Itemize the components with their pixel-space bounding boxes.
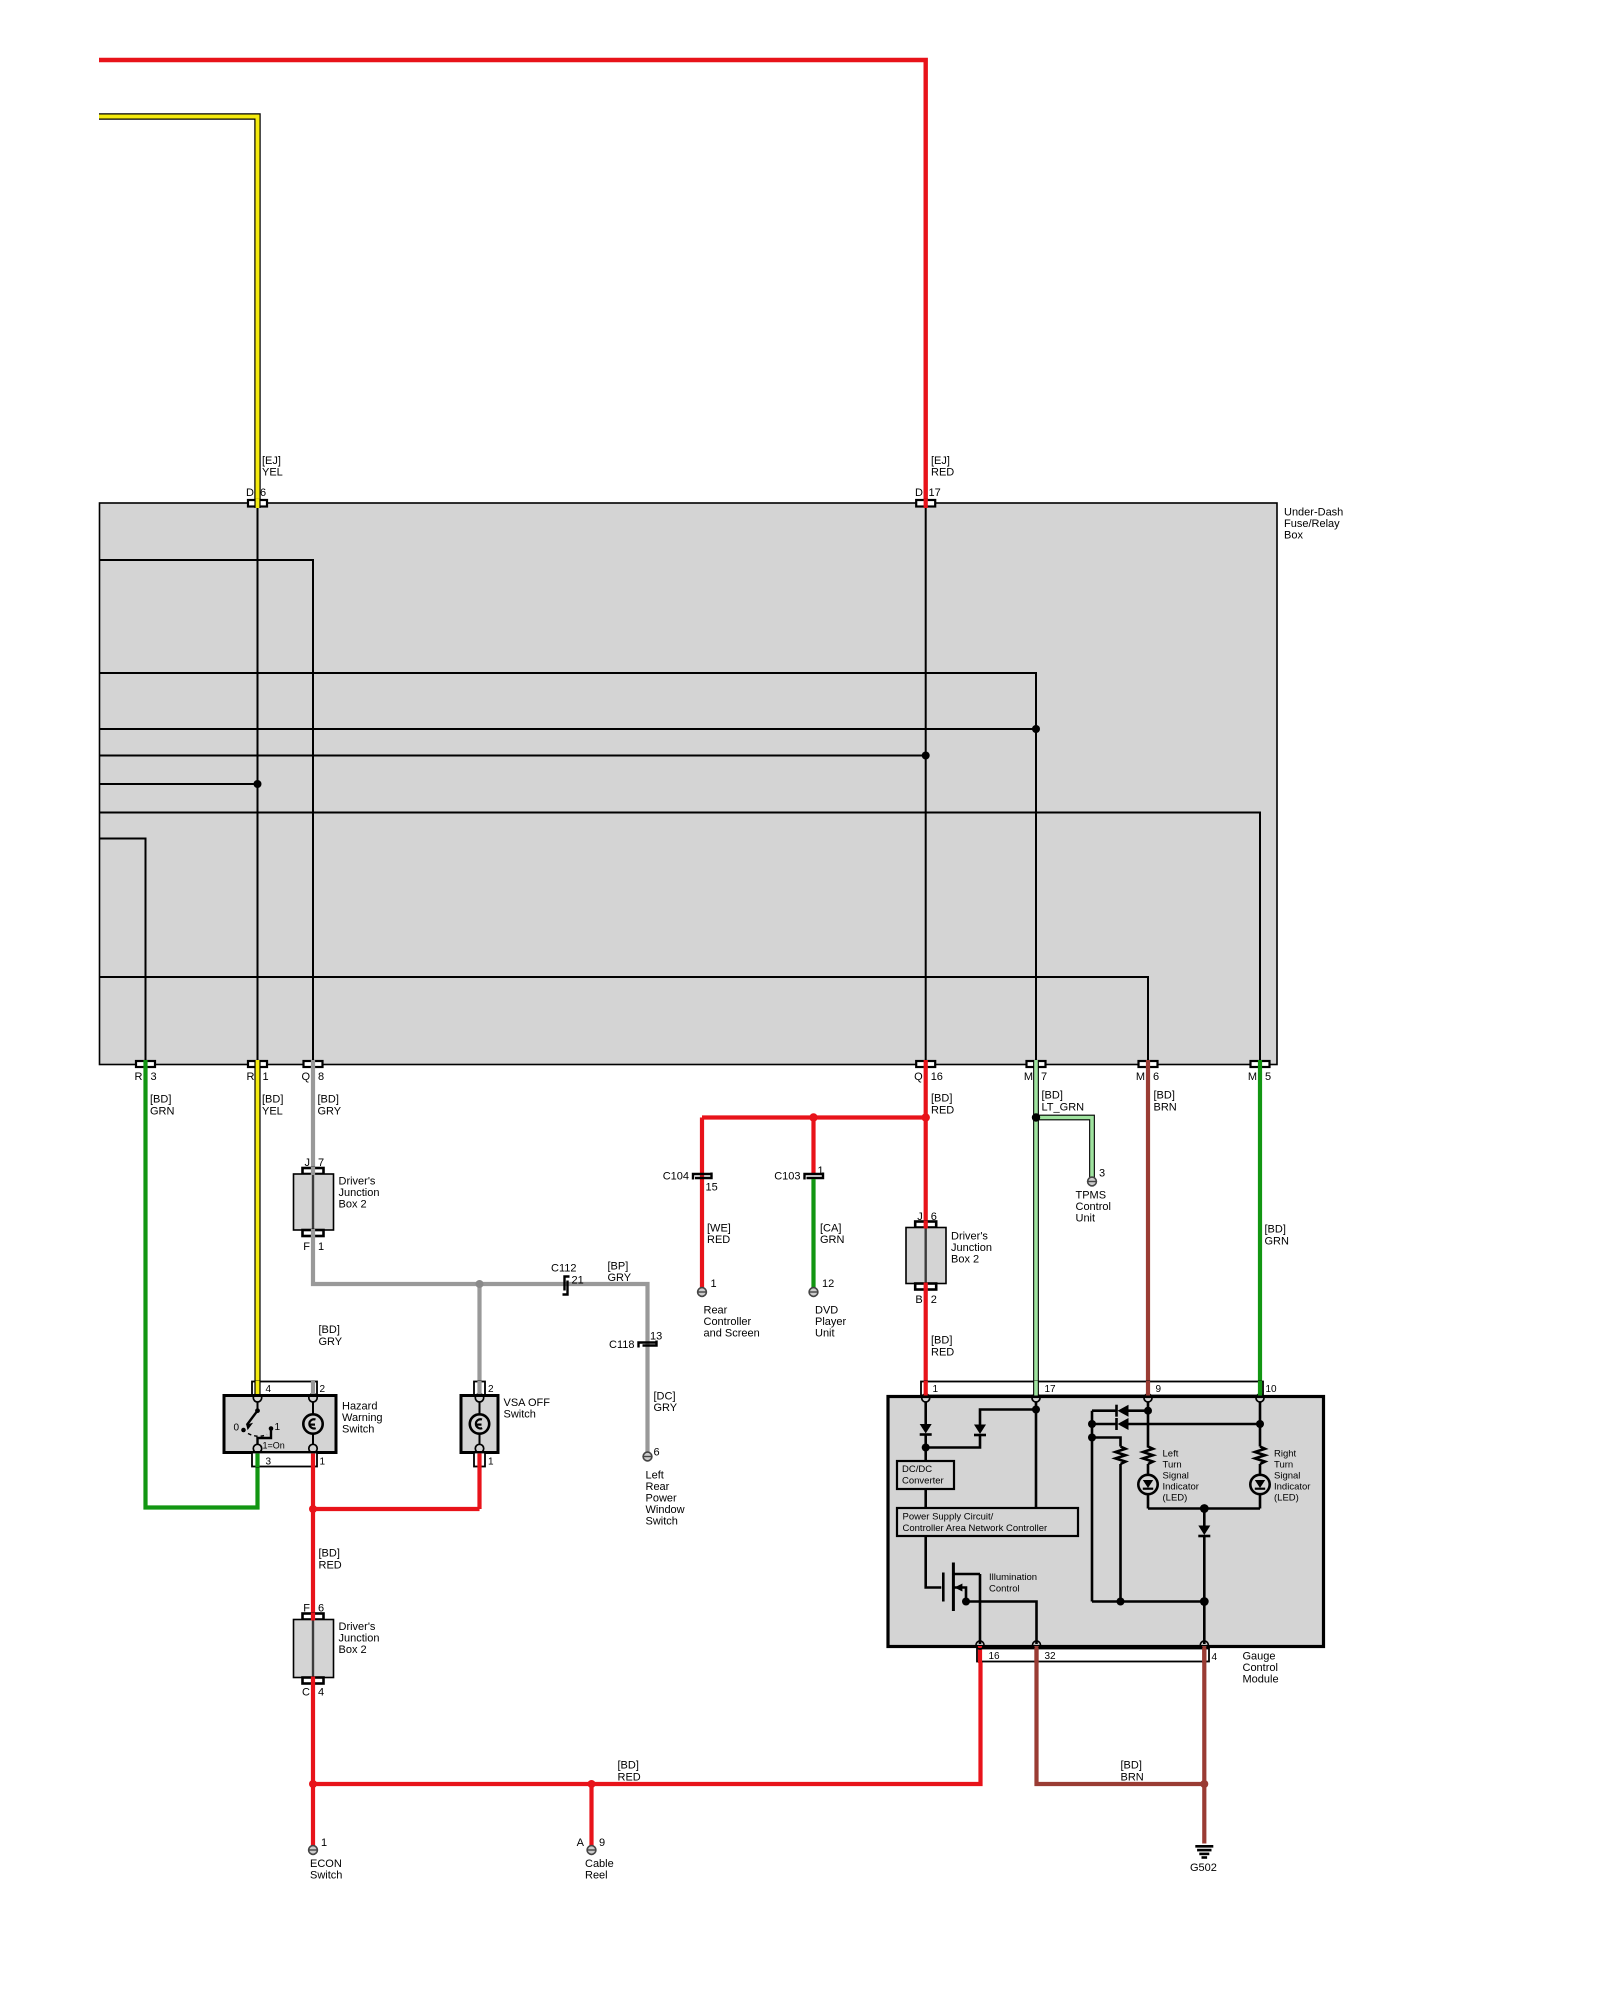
wire stub [EJ] YEL through pin bar D6 xyxy=(254,499,260,508)
vertical node wire left xyxy=(1088,1411,1096,1602)
wire stub [EJ] RED through pin bar D17 xyxy=(924,499,928,508)
svg-text:1: 1 xyxy=(488,1457,494,1468)
svg-text:1: 1 xyxy=(711,1278,717,1290)
pin M 5 label xyxy=(1248,1071,1271,1083)
svg-text:Left: Left xyxy=(1163,1449,1179,1460)
label Right Turn Signal Indicator (LED) xyxy=(1274,1449,1310,1504)
svg-text:Left: Left xyxy=(646,1470,664,1482)
wire [BD] LT_GRN from M7 to gauge pin 17 and TPMS xyxy=(1032,1067,1092,1395)
gauge pin 1 label xyxy=(933,1384,939,1395)
svg-text:M: M xyxy=(1248,1071,1257,1083)
wire pin 17 to power supply circuit xyxy=(1035,1402,1038,1508)
Hazard Warning Switch top connector xyxy=(252,1382,317,1396)
svg-text:8: 8 xyxy=(318,1071,324,1083)
label [BD] LT_GRN xyxy=(1042,1090,1085,1114)
Driver's Junction Box 2 (upper) xyxy=(294,1174,334,1230)
wire pin 9 node xyxy=(1144,1402,1152,1448)
svg-text:Illumination: Illumination xyxy=(989,1572,1037,1583)
pin F 6 label xyxy=(303,1603,324,1615)
label 3 (TPMS) xyxy=(1099,1168,1105,1180)
svg-text:Controller: Controller xyxy=(704,1316,752,1328)
label Cable Reel xyxy=(585,1858,614,1882)
wire stub RED through pin bar F6 xyxy=(311,1613,315,1621)
pin F 1 label xyxy=(303,1241,324,1253)
Hazard Warning Switch body xyxy=(224,1396,336,1453)
label C118 xyxy=(609,1339,634,1351)
svg-text:BRN: BRN xyxy=(1121,1772,1144,1784)
pin bar R3 xyxy=(136,1061,155,1067)
svg-text:1: 1 xyxy=(818,1165,824,1177)
wire [BD] BRN from M6 to gauge pin 9 xyxy=(1146,1067,1150,1395)
pin bar M5 xyxy=(1251,1061,1270,1067)
label Driver's Junction Box 2 (lower) xyxy=(339,1621,380,1656)
svg-text:Rear: Rear xyxy=(646,1481,670,1493)
label C112 xyxy=(551,1263,576,1275)
wire stub [BD] BRN through pin bar M6 xyxy=(1146,1060,1150,1068)
gauge pin 1 circle xyxy=(922,1394,930,1402)
svg-text:1: 1 xyxy=(321,1837,327,1849)
svg-text:RED: RED xyxy=(707,1234,730,1246)
label A 9 xyxy=(577,1837,605,1849)
svg-text:Box 2: Box 2 xyxy=(951,1254,979,1266)
svg-text:YEL: YEL xyxy=(262,467,283,479)
label [BD] GRY (F1) xyxy=(319,1324,343,1348)
wire stub GRY into hazard pin 2 xyxy=(311,1381,315,1394)
svg-text:6: 6 xyxy=(654,1447,660,1459)
svg-text:Gauge: Gauge xyxy=(1243,1651,1276,1663)
pin bar R1 xyxy=(248,1061,267,1067)
connector C104 xyxy=(693,1173,712,1180)
svg-text:[BD]: [BD] xyxy=(318,1094,339,1106)
label 1 (contact) xyxy=(275,1422,281,1433)
svg-text:Control: Control xyxy=(989,1584,1020,1595)
svg-text:9: 9 xyxy=(599,1837,605,1849)
svg-text:10: 10 xyxy=(1266,1384,1278,1395)
svg-text:5: 5 xyxy=(1265,1071,1271,1083)
wire [BD] GRY from F1 to switches and C112 xyxy=(313,1236,648,1452)
pin bar F6 xyxy=(303,1614,324,1620)
VSA bottom pin rect xyxy=(474,1453,485,1467)
svg-text:9: 9 xyxy=(1156,1384,1162,1395)
svg-text:[BD]: [BD] xyxy=(618,1760,639,1772)
VSA OFF Switch body xyxy=(461,1396,498,1453)
hazard lamp xyxy=(303,1402,322,1444)
LED common node xyxy=(1148,1504,1260,1513)
gauge pin 17 circle xyxy=(1032,1394,1040,1402)
pin 1 label xyxy=(320,1457,326,1468)
DC/DC Converter xyxy=(897,1461,954,1489)
svg-text:Driver's: Driver's xyxy=(339,1621,376,1633)
svg-text:BRN: BRN xyxy=(1154,1102,1177,1114)
gauge pin 16 label xyxy=(989,1651,1001,1662)
wire stub YEL into hazard pin 4 xyxy=(254,1381,260,1394)
wire [BD] GRY from Q8 to junction box J7 xyxy=(311,1067,315,1168)
svg-text:4: 4 xyxy=(266,1384,272,1395)
svg-text:C112: C112 xyxy=(551,1263,576,1275)
wire [BD] BRN from pins 32 and 4 to G502 xyxy=(1037,1648,1209,1844)
svg-text:RED: RED xyxy=(931,1105,954,1117)
transistor Q1 illumination MOSFET xyxy=(943,1563,980,1612)
svg-text:Power Supply Circuit/: Power Supply Circuit/ xyxy=(903,1512,994,1523)
svg-text:YEL: YEL xyxy=(262,1106,283,1118)
svg-text:[BD]: [BD] xyxy=(319,1324,340,1336)
svg-text:Switch: Switch xyxy=(342,1424,374,1436)
svg-text:A: A xyxy=(577,1837,585,1849)
Gauge Control Module body xyxy=(888,1397,1324,1647)
svg-text:17: 17 xyxy=(929,487,941,499)
pin bar Q16 xyxy=(916,1061,935,1067)
label Left Rear Power Window Switch xyxy=(646,1470,685,1528)
wire [BD] RED hazard pin1 to junction and VSA pin1 xyxy=(309,1467,480,1614)
terminal A 9 of Cable Reel xyxy=(587,1846,596,1855)
label G502 xyxy=(1190,1862,1217,1874)
svg-text:Q: Q xyxy=(301,1071,310,1083)
pin 2 label xyxy=(320,1384,326,1395)
svg-text:GRY: GRY xyxy=(608,1272,632,1284)
Driver's Junction Box 2 (right) xyxy=(906,1228,946,1284)
wire stub BRN into gauge pin 9 xyxy=(1146,1381,1150,1396)
svg-text:C: C xyxy=(302,1687,310,1699)
svg-text:Signal: Signal xyxy=(1163,1471,1189,1482)
gauge pin 32 label xyxy=(1045,1651,1057,1662)
svg-text:Power: Power xyxy=(646,1493,678,1505)
svg-text:[BD]: [BD] xyxy=(1265,1224,1286,1236)
wire [BD] YEL from R1 to Hazard pin 4 xyxy=(254,1067,260,1382)
svg-text:[EJ]: [EJ] xyxy=(931,455,950,467)
label [BD] RED (B2) xyxy=(931,1335,954,1359)
pin bar M6 xyxy=(1139,1061,1158,1067)
label [EJ] YEL xyxy=(262,455,283,479)
label C104 xyxy=(663,1171,689,1183)
hazard contact 1 xyxy=(269,1426,274,1431)
pin Q 8 label xyxy=(301,1071,324,1083)
wire stub GRY into VSA pin 2 xyxy=(477,1381,481,1394)
svg-text:J: J xyxy=(917,1211,923,1223)
wire stub [BD] GRN through pin bar M5 xyxy=(1258,1060,1262,1068)
svg-text:Right: Right xyxy=(1274,1449,1297,1460)
wire stub RED into gauge pin 1 xyxy=(924,1381,928,1396)
label 13 xyxy=(650,1331,662,1343)
Under-Dash Fuse/Relay Box body xyxy=(100,503,1278,1065)
label [BD] BRN (M6) xyxy=(1154,1090,1177,1114)
svg-text:Junction: Junction xyxy=(339,1187,380,1199)
svg-text:DVD: DVD xyxy=(815,1305,838,1317)
svg-text:Junction: Junction xyxy=(339,1633,380,1645)
pin Q 16 label xyxy=(914,1071,943,1083)
wire stub GRN from hazard pin 3 xyxy=(255,1454,259,1468)
label TPMS Control Unit xyxy=(1076,1190,1111,1225)
connector C112 xyxy=(563,1277,570,1295)
svg-text:[BD]: [BD] xyxy=(931,1335,952,1347)
wire MOSFET drain to pin 16 xyxy=(979,1574,982,1644)
pin D 6 label xyxy=(246,487,266,499)
label [CA] GRN xyxy=(820,1223,845,1247)
gauge pin 4 label xyxy=(1212,1652,1218,1663)
gauge pin 4 circle xyxy=(1200,1641,1208,1649)
pin bar J7 xyxy=(303,1168,324,1174)
svg-text:Driver's: Driver's xyxy=(339,1176,376,1188)
wire stub GRY through pin bar J7 xyxy=(311,1167,315,1175)
label Rear Controller and Screen xyxy=(704,1305,760,1340)
internal wire joining M7 branch xyxy=(100,725,1041,733)
label pin 6 xyxy=(654,1447,660,1459)
svg-text:32: 32 xyxy=(1045,1651,1057,1662)
svg-text:Under-Dash: Under-Dash xyxy=(1284,507,1343,519)
svg-text:17: 17 xyxy=(1045,1384,1057,1395)
diode D3 to pin 4 xyxy=(1198,1509,1210,1645)
svg-text:1: 1 xyxy=(263,1071,269,1083)
wire [EJ] RED from page edge to D17 xyxy=(99,60,926,502)
svg-text:Reel: Reel xyxy=(585,1870,608,1882)
svg-text:12: 12 xyxy=(822,1278,834,1290)
internal wire D17 to Q16 xyxy=(925,507,927,1062)
svg-text:2: 2 xyxy=(931,1294,937,1306)
svg-text:7: 7 xyxy=(318,1157,324,1169)
svg-text:D: D xyxy=(915,487,923,499)
Driver's Junction Box 2 (lower) xyxy=(294,1620,334,1678)
hazard wire from contact 1 to pin 3 xyxy=(258,1429,272,1445)
Power Supply Circuit / CAN Controller box xyxy=(897,1508,1078,1536)
svg-text:6: 6 xyxy=(318,1603,324,1615)
svg-text:Player: Player xyxy=(815,1316,847,1328)
pin R 3 label xyxy=(135,1071,157,1083)
svg-text:R: R xyxy=(247,1071,255,1083)
label 15 xyxy=(706,1182,718,1194)
wire stub [BD] GRY through pin bar Q8 xyxy=(311,1060,315,1068)
svg-text:B: B xyxy=(915,1294,922,1306)
pin R 1 label xyxy=(247,1071,269,1083)
resistor right turn xyxy=(1255,1402,1265,1475)
connector C118 xyxy=(639,1341,657,1348)
svg-text:RED: RED xyxy=(618,1772,641,1784)
svg-text:RED: RED xyxy=(931,1347,954,1359)
LED left turn signal indicator xyxy=(1138,1475,1157,1509)
node wire bottom xyxy=(1092,1600,1204,1603)
label [BD] GRN (M5) xyxy=(1265,1224,1290,1248)
label [BD] RED (Q16) xyxy=(931,1093,954,1117)
svg-text:Box 2: Box 2 xyxy=(339,1644,367,1656)
svg-text:Turn: Turn xyxy=(1274,1460,1293,1471)
pin bar Q8 xyxy=(304,1061,323,1067)
diode D1 to pin 9 xyxy=(1092,1405,1148,1417)
hazard switch arm xyxy=(247,1402,260,1429)
svg-text:[BD]: [BD] xyxy=(262,1094,283,1106)
label [DC] GRY xyxy=(654,1391,678,1415)
pin D 17 label xyxy=(915,487,941,499)
wire stub BRN through bottom connector at pin 4 xyxy=(1202,1646,1206,1663)
svg-text:Control: Control xyxy=(1076,1201,1111,1213)
wire [BD] GRN from R3 to Hazard pin 3 xyxy=(146,1067,258,1508)
wire power supply to MOSFET gate xyxy=(926,1536,942,1588)
label Hazard Warning Switch xyxy=(342,1401,383,1436)
Hazard pin 3 circle xyxy=(253,1444,261,1452)
svg-text:Indicator: Indicator xyxy=(1274,1482,1310,1493)
label [BD] GRY (Q8) xyxy=(318,1094,342,1118)
svg-text:F: F xyxy=(303,1603,310,1615)
resistor left turn xyxy=(1143,1447,1153,1476)
diode D2 to pin 10 xyxy=(1092,1418,1264,1430)
svg-text:Rear: Rear xyxy=(704,1305,728,1317)
svg-text:1: 1 xyxy=(318,1241,324,1253)
pin bar F1 xyxy=(303,1230,324,1236)
terminal 1 of Rear Controller and Screen xyxy=(698,1288,707,1297)
svg-text:Turn: Turn xyxy=(1163,1460,1182,1471)
svg-text:Box: Box xyxy=(1284,530,1303,542)
terminal 12 of DVD Player Unit xyxy=(809,1288,818,1297)
svg-text:1: 1 xyxy=(933,1384,939,1395)
label DC/DC Converter xyxy=(902,1464,944,1487)
wire stub [BD] RED through pin bar Q16 xyxy=(924,1060,928,1068)
label [BP] GRY xyxy=(608,1261,632,1285)
Hazard pin 4 circle xyxy=(253,1394,261,1402)
svg-text:GRN: GRN xyxy=(1265,1236,1290,1248)
wire [EJ] YEL from page edge to D6 xyxy=(99,117,258,503)
wire stub GRN into gauge pin 10 xyxy=(1258,1381,1262,1396)
svg-text:1=On: 1=On xyxy=(263,1441,285,1451)
wire stub BRN through bottom connector at pin 32 xyxy=(1034,1646,1038,1663)
Gauge bottom connector xyxy=(977,1649,1209,1662)
VSA pin 1 circle xyxy=(475,1444,483,1452)
label C103 xyxy=(774,1171,800,1183)
wire GRY branch to VSA OFF switch xyxy=(476,1280,484,1382)
label ECON Switch xyxy=(310,1858,342,1882)
svg-text:[BD]: [BD] xyxy=(931,1093,952,1105)
wire [BD] GRN from M5 to gauge pin 10 xyxy=(1258,1067,1262,1395)
pin bar C4 xyxy=(303,1678,324,1684)
pin bar D6 xyxy=(248,500,267,507)
LED right turn signal indicator xyxy=(1250,1475,1269,1509)
VSA pin 2 circle xyxy=(475,1394,483,1402)
terminal 3 of TPMS Control Unit xyxy=(1088,1177,1097,1186)
label [BD] GRN (R3) xyxy=(150,1094,175,1118)
svg-text:Control: Control xyxy=(1243,1662,1278,1674)
VSA pin 2 label xyxy=(488,1384,494,1395)
label Driver's Junction Box 2 (upper) xyxy=(339,1176,380,1211)
gauge pin 16 circle xyxy=(976,1641,984,1649)
label [EJ] RED xyxy=(931,455,954,479)
svg-text:Signal: Signal xyxy=(1274,1471,1300,1482)
svg-text:Module: Module xyxy=(1243,1674,1279,1686)
svg-text:R: R xyxy=(135,1071,143,1083)
pin C 4 label xyxy=(302,1687,324,1699)
internal wire to M7 xyxy=(100,673,1037,1061)
svg-text:(LED): (LED) xyxy=(1274,1493,1299,1504)
svg-text:[BD]: [BD] xyxy=(319,1548,340,1560)
wire [CA] GRN C103 to DVD Player xyxy=(811,1179,815,1288)
svg-text:[DC]: [DC] xyxy=(654,1391,676,1403)
pin M 6 label xyxy=(1136,1071,1159,1083)
gauge pin 17 label xyxy=(1045,1384,1057,1395)
svg-text:LT_GRN: LT_GRN xyxy=(1042,1102,1085,1114)
svg-text:and Screen: and Screen xyxy=(704,1328,760,1340)
svg-text:Controller Area Network Contro: Controller Area Network Controller xyxy=(903,1523,1048,1534)
connector C103 xyxy=(805,1173,824,1180)
svg-text:21: 21 xyxy=(572,1275,584,1287)
svg-text:[BD]: [BD] xyxy=(1121,1760,1142,1772)
resistor R3 (dimmer leg) xyxy=(1092,1438,1126,1606)
internal wire joining D17 branch xyxy=(100,752,930,760)
gauge pin 10 circle xyxy=(1256,1394,1264,1402)
svg-text:GRN: GRN xyxy=(820,1234,845,1246)
label [BD] YEL (R1) xyxy=(262,1094,283,1118)
svg-text:C118: C118 xyxy=(609,1339,634,1351)
svg-text:[CA]: [CA] xyxy=(820,1223,841,1235)
hazard contact 0 xyxy=(241,1428,246,1433)
svg-text:16: 16 xyxy=(931,1071,943,1083)
svg-text:Window: Window xyxy=(646,1504,685,1516)
ground G502 xyxy=(1195,1846,1213,1857)
diode from pin 17 branch xyxy=(926,1406,1040,1448)
svg-text:Converter: Converter xyxy=(902,1476,944,1487)
svg-text:Fuse/Relay: Fuse/Relay xyxy=(1284,518,1340,530)
svg-text:GRY: GRY xyxy=(318,1106,342,1118)
gauge pin 9 label xyxy=(1156,1384,1162,1395)
label DVD Player Unit xyxy=(815,1305,847,1340)
svg-text:Cable: Cable xyxy=(585,1858,614,1870)
internal wire to M5 xyxy=(100,813,1261,1062)
wire MOSFET source to pin 32 xyxy=(962,1598,1037,1645)
svg-text:15: 15 xyxy=(706,1182,718,1194)
label 21 xyxy=(572,1275,584,1287)
label 1 (C103) xyxy=(818,1165,824,1177)
svg-text:[BP]: [BP] xyxy=(608,1261,629,1273)
label Illumination Control xyxy=(989,1572,1037,1595)
svg-text:[BD]: [BD] xyxy=(1042,1090,1063,1102)
svg-text:Hazard: Hazard xyxy=(342,1401,377,1413)
svg-text:D: D xyxy=(246,487,254,499)
VSA pin 1 label xyxy=(488,1457,494,1468)
label [BD] BRN (bottom) xyxy=(1121,1760,1144,1784)
svg-text:16: 16 xyxy=(989,1651,1001,1662)
wire stub RED from hazard pin 1 xyxy=(311,1454,315,1468)
svg-text:TPMS: TPMS xyxy=(1076,1190,1107,1202)
wire stub RED through bottom connector at pin 16 xyxy=(978,1646,982,1663)
svg-text:Indicator: Indicator xyxy=(1163,1482,1199,1493)
svg-text:GRY: GRY xyxy=(654,1402,678,1414)
internal wire to M6 xyxy=(100,977,1149,1061)
svg-text:Switch: Switch xyxy=(310,1870,342,1882)
label [WE] RED xyxy=(707,1223,731,1247)
svg-text:J: J xyxy=(305,1157,311,1169)
svg-text:[BD]: [BD] xyxy=(1154,1090,1175,1102)
svg-text:RED: RED xyxy=(931,467,954,479)
svg-text:6: 6 xyxy=(1153,1071,1159,1083)
svg-text:4: 4 xyxy=(318,1687,324,1699)
VSA OFF Switch top pin rect xyxy=(474,1382,485,1396)
svg-text:1: 1 xyxy=(275,1422,281,1433)
svg-text:[WE]: [WE] xyxy=(707,1223,731,1235)
diode from pin 1 xyxy=(920,1402,932,1461)
svg-text:7: 7 xyxy=(1041,1071,1047,1083)
pin bar J6 xyxy=(915,1222,936,1228)
svg-text:Unit: Unit xyxy=(1076,1213,1096,1225)
svg-text:G502: G502 xyxy=(1190,1862,1217,1874)
Gauge Control Module top connector xyxy=(921,1382,1263,1396)
terminal 1 of ECON Switch xyxy=(309,1846,318,1855)
pin bar M7 xyxy=(1027,1061,1046,1067)
pin bar D17 xyxy=(916,500,935,507)
label [BD] RED (bottom) xyxy=(618,1760,641,1784)
svg-text:C104: C104 xyxy=(663,1171,689,1183)
Hazard bottom connector xyxy=(252,1453,317,1467)
svg-text:Warning: Warning xyxy=(342,1412,383,1424)
label Power Supply Circuit/Controller Area Network Controller xyxy=(903,1512,1048,1535)
svg-text:Box 2: Box 2 xyxy=(339,1199,367,1211)
svg-text:Junction: Junction xyxy=(951,1242,992,1254)
svg-text:Unit: Unit xyxy=(815,1328,835,1340)
pin 4 label xyxy=(266,1384,272,1395)
label [BD] RED (hazard) xyxy=(319,1548,342,1572)
